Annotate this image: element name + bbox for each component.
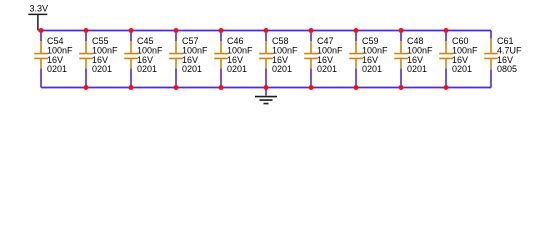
svg-text:0201: 0201: [317, 64, 337, 74]
svg-text:0201: 0201: [362, 64, 382, 74]
svg-text:0201: 0201: [407, 64, 427, 74]
svg-text:0201: 0201: [452, 64, 472, 74]
svg-text:0201: 0201: [182, 64, 202, 74]
svg-text:0201: 0201: [137, 64, 157, 74]
svg-text:0201: 0201: [227, 64, 247, 74]
svg-text:0201: 0201: [272, 64, 292, 74]
svg-text:0201: 0201: [92, 64, 112, 74]
svg-text:0805: 0805: [497, 64, 517, 74]
svg-text:3.3V: 3.3V: [30, 4, 49, 14]
svg-text:0201: 0201: [47, 64, 67, 74]
